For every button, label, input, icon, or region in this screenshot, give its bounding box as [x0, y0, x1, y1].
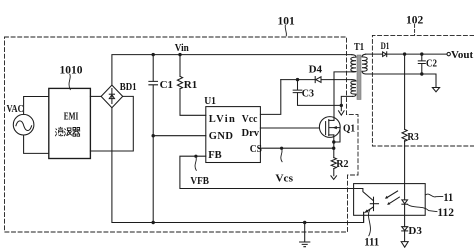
label 1010 — [69, 74, 70, 89]
label 11 pointer — [425, 194, 442, 197]
label VFB — [195, 157, 196, 171]
label 111 — [368, 210, 370, 236]
label 101 — [285, 25, 286, 35]
label 112 pointer — [408, 205, 437, 212]
svg-text:Vcc: Vcc — [242, 114, 258, 125]
svg-text:1010: 1010 — [60, 64, 83, 76]
wire secondary bottom rail — [366, 74, 436, 87]
svg-text:D4: D4 — [309, 63, 323, 75]
label 102 — [414, 24, 416, 34]
wire Vcc to snubber node — [260, 80, 280, 115]
wire FB to optocoupler collector — [180, 156, 374, 201]
wire primary bottom to Q1 drain — [334, 72, 352, 121]
wire snubber line to D4 — [281, 79, 316, 81]
resistor R3 — [404, 54, 406, 129]
wire Drv to Q1 gate — [260, 127, 319, 129]
svg-text:T1: T1 — [354, 41, 364, 53]
diode D1 — [383, 52, 387, 57]
optocoupler 11 box — [354, 184, 426, 216]
capacitor C3 — [296, 78, 299, 81]
wire Q1 source down — [333, 135, 335, 158]
wire EMI to BD1 left vertex — [90, 95, 101, 97]
wire CS to Q1 source — [260, 147, 333, 149]
IC U1 — [206, 107, 261, 163]
wire Vin top rail — [112, 55, 352, 86]
svg-text:U1: U1 — [204, 95, 216, 107]
svg-text:Vin: Vin — [175, 42, 189, 54]
svg-text:EMI: EMI — [64, 111, 79, 122]
svg-text:R3: R3 — [407, 131, 419, 143]
svg-text:Q1: Q1 — [343, 122, 355, 134]
svg-text:R2: R2 — [336, 158, 349, 170]
svg-text:VAC: VAC — [7, 104, 24, 115]
junction bottom rail ground stub — [303, 221, 306, 224]
svg-text:111: 111 — [364, 236, 379, 248]
svg-text:LVin: LVin — [209, 114, 235, 125]
wire VAC top to EMI — [24, 97, 49, 115]
svg-text:101: 101 — [278, 16, 296, 28]
EMI filter block 1010 — [49, 88, 91, 158]
AC source VAC — [13, 114, 34, 135]
wire aux bottom to ground node — [341, 96, 352, 105]
ground D3 — [401, 242, 408, 248]
svg-text:VFB: VFB — [190, 176, 209, 187]
svg-text:D1: D1 — [381, 42, 390, 52]
T1 primary winding — [351, 55, 356, 72]
svg-text:C2: C2 — [426, 58, 437, 70]
T1 auxiliary winding — [351, 80, 356, 97]
svg-text:C1: C1 — [160, 79, 173, 91]
wire secondary top to D1 — [366, 53, 383, 55]
wire VAC bottom to EMI — [24, 135, 49, 153]
svg-text:CS: CS — [250, 144, 262, 155]
svg-text:11: 11 — [443, 192, 453, 204]
resistor R2 — [331, 158, 336, 169]
junction C1 top — [152, 53, 155, 56]
svg-text:GND: GND — [209, 131, 234, 142]
dashed box 101 — [5, 37, 359, 232]
dashed box 102 — [372, 35, 474, 146]
T1 core — [357, 55, 361, 100]
EMI chinese label 滤波器 — [55, 127, 80, 136]
light arrows — [386, 191, 398, 198]
svg-text:BD1: BD1 — [120, 82, 137, 93]
wire BD1 bottom / bottom rail — [112, 108, 364, 223]
wire BD1 right vertex loop back to EMI — [90, 96, 133, 151]
ground aux winding — [340, 105, 342, 110]
wire output line to Vout — [387, 53, 447, 55]
svg-text:D3: D3 — [408, 225, 422, 237]
bridge rectifier BD1 — [101, 85, 123, 108]
ground output — [432, 88, 439, 92]
junction bottom rail C1 — [152, 221, 155, 224]
svg-text:Vcs: Vcs — [275, 173, 293, 184]
wire GND pin to C1 line — [153, 135, 206, 137]
svg-text:102: 102 — [406, 15, 424, 27]
T1 secondary winding — [362, 54, 367, 74]
ground earth symbol — [304, 223, 306, 242]
phototransistor 111 — [373, 197, 375, 210]
capacitor C2 — [421, 54, 423, 61]
svg-text:112: 112 — [437, 207, 454, 219]
resistor R1 — [179, 55, 181, 77]
node Vout — [447, 52, 450, 55]
wire D3 to ground — [404, 231, 406, 241]
svg-text:R1: R1 — [184, 79, 197, 91]
node Vin — [178, 53, 181, 56]
node aux-ground junction — [340, 104, 343, 107]
svg-text:FB: FB — [208, 150, 221, 161]
label Vcs — [281, 149, 282, 162]
svg-text:Vout: Vout — [451, 49, 474, 61]
LED 112 — [402, 200, 408, 204]
svg-text:Drv: Drv — [242, 128, 260, 139]
capacitor C1 — [152, 55, 154, 82]
svg-text:C3: C3 — [302, 87, 315, 99]
diode D4 — [314, 77, 316, 83]
diode D3 — [402, 227, 408, 231]
wire LED to D3 — [404, 204, 406, 226]
transistor Q1 — [319, 117, 340, 138]
ground R2 — [331, 176, 337, 180]
